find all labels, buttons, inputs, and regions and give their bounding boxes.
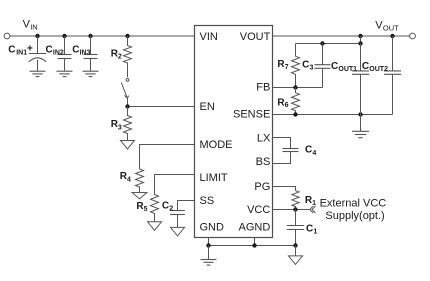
node junction dot VCC	[293, 207, 297, 211]
svg-text:C: C	[305, 145, 312, 156]
svg-text:C: C	[72, 45, 79, 56]
value label COUT2	[362, 61, 388, 73]
ground triangle under R4	[132, 193, 147, 199]
node junction dot A-COUT1	[358, 41, 362, 45]
ground earth under CIN1	[30, 71, 46, 76]
text external VCC note	[320, 198, 387, 222]
node junction dot VOUT-COUT1	[358, 34, 362, 38]
svg-text:1: 1	[313, 228, 317, 235]
node junction dot AGND	[252, 243, 256, 247]
ground triangle under R5	[148, 222, 162, 231]
svg-text:AGND: AGND	[239, 221, 271, 233]
resistor R6	[292, 88, 300, 115]
wire VOUT rail	[273, 35, 410, 37]
svg-text:C: C	[302, 60, 309, 71]
svg-text:+: +	[27, 44, 33, 55]
net label VOUT	[375, 19, 399, 32]
node junction dot SENSE-GND	[358, 112, 362, 116]
svg-text:5: 5	[144, 206, 148, 213]
ground earth at SENSE	[352, 115, 369, 138]
capacitor CIN1	[29, 36, 46, 71]
capacitor C3	[296, 44, 331, 88]
svg-text:3: 3	[310, 65, 314, 72]
node junction dot EN	[125, 104, 129, 108]
node junction dot C1-gnd	[293, 243, 297, 247]
wire SENSE	[273, 114, 393, 116]
value label CIN2	[46, 45, 64, 57]
wire VIN rail	[10, 35, 195, 37]
value label R1	[305, 195, 316, 207]
ground triangle under R3	[121, 141, 135, 150]
svg-text:C: C	[8, 45, 15, 56]
capacitor C1	[287, 210, 304, 246]
svg-text:IN3: IN3	[80, 49, 91, 56]
resistor R2	[124, 36, 132, 77]
node junction dot VIN-R2	[125, 34, 129, 38]
wire GND pin drop	[208, 238, 210, 246]
svg-text:VIN: VIN	[200, 31, 218, 43]
svg-text:PG: PG	[254, 181, 270, 193]
ground triangle under C1	[289, 246, 303, 265]
terminal VOUT	[410, 33, 416, 39]
wire AGND pin drop	[254, 238, 256, 246]
switch S1	[121, 79, 129, 107]
resistor R3	[124, 107, 132, 141]
node junction dot GND	[206, 243, 210, 247]
svg-text:4: 4	[312, 150, 316, 157]
svg-text:LX: LX	[257, 132, 271, 144]
svg-text:LIMIT: LIMIT	[200, 172, 228, 184]
value label C3	[302, 60, 313, 72]
value label R5	[136, 201, 147, 213]
svg-text:OUT1: OUT1	[338, 66, 357, 73]
wire PG	[273, 187, 296, 191]
value label CIN1	[8, 44, 33, 57]
wire EN	[128, 106, 195, 108]
value label R3	[111, 119, 122, 131]
arrow external VCC chevrons	[310, 206, 316, 213]
wire FB	[273, 87, 296, 89]
IC U1 regulator	[195, 26, 273, 238]
svg-text:3: 3	[118, 124, 122, 131]
value label COUT1	[331, 61, 357, 73]
wire MODE	[140, 145, 195, 170]
capacitor CIN3	[84, 36, 98, 71]
node junction dot SENSE-R6	[293, 112, 297, 116]
svg-text:IN: IN	[30, 23, 38, 32]
terminal VIN	[4, 33, 10, 39]
capacitor CIN2	[58, 36, 72, 71]
svg-text:FB: FB	[256, 82, 270, 94]
node junction dot A-C3	[320, 41, 324, 45]
svg-text:C: C	[306, 224, 313, 235]
node junction dot VIN-CIN3	[88, 34, 92, 38]
value label CIN3	[72, 45, 90, 57]
svg-text:4: 4	[127, 176, 131, 183]
ground earth under CIN2	[57, 71, 73, 76]
svg-text:OUT: OUT	[383, 23, 399, 32]
ground earth under GND	[201, 246, 217, 266]
svg-text:External VCC: External VCC	[320, 198, 387, 210]
node junction dot VIN-CIN1	[35, 34, 39, 38]
value label C2	[162, 200, 173, 212]
svg-text:BS: BS	[256, 156, 271, 168]
net label VIN	[23, 19, 38, 32]
svg-text:GND: GND	[200, 221, 225, 233]
svg-text:EN: EN	[200, 101, 215, 113]
capacitor C2	[170, 211, 185, 228]
svg-text:1: 1	[312, 200, 316, 207]
svg-text:SS: SS	[200, 195, 215, 207]
value label C1	[306, 224, 317, 236]
value label C4	[305, 145, 316, 157]
ground earth under CIN3	[83, 71, 99, 76]
wire VCC	[273, 209, 311, 211]
svg-text:7: 7	[285, 64, 289, 71]
resistor R4	[136, 169, 144, 193]
resistor R1	[292, 191, 299, 210]
svg-text:OUT2: OUT2	[369, 66, 388, 73]
capacitor COUT1	[352, 44, 369, 115]
wire node A feedback top	[296, 36, 361, 44]
wire BS	[273, 152, 291, 164]
svg-text:IN1: IN1	[16, 49, 27, 56]
value label R6	[277, 97, 288, 109]
svg-text:C: C	[162, 200, 169, 211]
svg-text:2: 2	[169, 206, 173, 213]
ground triangle under C2	[171, 227, 185, 236]
wire SS	[178, 201, 195, 211]
wire LIMIT	[155, 174, 195, 176]
capacitor COUT2	[384, 36, 401, 115]
resistor R7	[292, 44, 300, 88]
svg-text:Supply(opt.): Supply(opt.)	[325, 210, 384, 222]
value label R4	[120, 171, 131, 183]
value label R2	[111, 49, 122, 61]
svg-text:2: 2	[118, 54, 122, 61]
node junction dot VOUT-COUT2	[390, 34, 394, 38]
capacitor C4	[283, 149, 299, 152]
svg-text:C: C	[46, 45, 53, 56]
node junction dot FB	[293, 85, 297, 89]
svg-text:VCC: VCC	[247, 204, 270, 216]
svg-text:C: C	[331, 61, 338, 72]
value label R7	[277, 59, 288, 71]
node junction dot VIN-CIN2	[62, 34, 66, 38]
wire ground bus	[209, 245, 296, 247]
svg-text:VOUT: VOUT	[240, 31, 271, 43]
svg-text:SENSE: SENSE	[233, 109, 270, 121]
svg-text:6: 6	[285, 102, 289, 109]
resistor R5	[151, 175, 159, 222]
svg-text:C: C	[362, 61, 369, 72]
svg-text:IN2: IN2	[53, 49, 64, 56]
wire LX	[273, 138, 291, 149]
svg-text:MODE: MODE	[200, 139, 233, 151]
